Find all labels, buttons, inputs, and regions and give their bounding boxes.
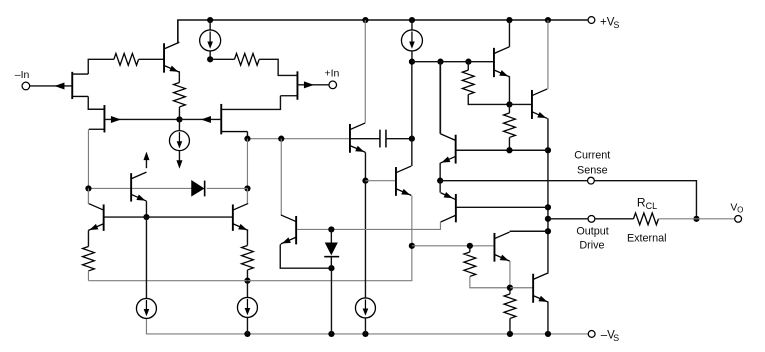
wire Q7 collector up to I5 net — [411, 62, 413, 166]
wire J3 gate to +In terminal — [297, 84, 328, 86]
transistor Q10 (mirror right) — [232, 204, 234, 230]
wire D2 junction to -VS rail — [330, 268, 332, 334]
wire Q2 emitter to N5 — [508, 76, 510, 104]
svg-text:Sense: Sense — [577, 165, 608, 177]
wire N5 to Q3 base — [509, 103, 532, 105]
node N6 junction — [506, 147, 512, 153]
wire Q10 collector up — [246, 188, 248, 203]
label Output Drive — [576, 225, 608, 251]
wire I3 top (from mirror base net) — [145, 217, 147, 298]
jfet J4 (+In cascode) — [221, 104, 247, 134]
wire net N6 (Q4 base) — [456, 149, 548, 151]
wire J2 source down to mirror net — [87, 129, 89, 204]
transistor Q11 (mirror center) — [130, 173, 132, 201]
wire I4 to -VS rail — [246, 317, 248, 334]
wire +VS to I1 — [209, 20, 211, 30]
wire N2 down to Q8 collector — [280, 139, 282, 215]
capacitor C1 — [380, 130, 386, 148]
wire Q11 collector up — [145, 155, 147, 168]
wire N2 down to Q10 collector — [246, 139, 248, 204]
label Current Sense — [574, 149, 610, 176]
wire Q1 emitter to R3 — [178, 71, 180, 82]
wire -In to J1 gate — [30, 85, 72, 87]
wire Q8 emitter path — [280, 244, 331, 268]
wire J2 gate to node N1 — [104, 118, 179, 120]
wire mirror net — [88, 187, 247, 189]
wire I6 to -VS rail — [364, 318, 366, 334]
wire +VS to I5 — [411, 20, 413, 30]
wire Q6 emitter down — [364, 152, 366, 180]
capacitor C1 right lead — [386, 138, 412, 140]
diode D1 — [191, 180, 204, 197]
svg-text:Output: Output — [576, 225, 608, 237]
node N8 (Q12 base) — [507, 285, 513, 291]
wire R9 to -VS rail — [509, 318, 511, 334]
wire J4 gate to node N1 — [179, 118, 221, 120]
wire I2 output — [178, 151, 180, 162]
wire Q7 base — [365, 180, 396, 182]
transistor Q12 (output) — [532, 274, 534, 303]
arrow -In gate (points left) — [54, 82, 64, 89]
wire J1 source to J2 drain — [88, 96, 104, 109]
wire Q2 collector to +VS rail — [508, 20, 510, 47]
resistor RCL — [633, 213, 658, 225]
label RCL — [637, 195, 657, 211]
resistor R4 — [462, 70, 474, 94]
capacitor C1 left lead — [351, 138, 380, 140]
resistor R6 — [83, 246, 95, 270]
wire -VS rail — [146, 319, 588, 334]
transistor Q2 — [493, 48, 495, 77]
wire Q1 collector to +VS rail — [177, 20, 179, 42]
wire Q6 collector to +VS rail — [364, 20, 366, 122]
wire Q3 emitter down (output column) — [547, 118, 549, 272]
jfet J1 (-In input) — [72, 72, 88, 99]
wire I5 to net N4 — [411, 51, 413, 62]
node N5 (Q2 emitter/R5/Q3 base) — [506, 101, 512, 107]
jfet J3 (+In input) — [280, 71, 297, 99]
wire Q7 emitter down — [411, 195, 413, 246]
wire N3 to R8 — [469, 246, 471, 252]
wire R5 to net N6 — [508, 137, 510, 150]
transistor Q9 (mirror left) — [103, 204, 105, 230]
current source I6 — [355, 298, 375, 318]
resistor R9 — [504, 294, 516, 318]
resistor R3 — [174, 82, 186, 106]
node N3 junction (R8 top) — [467, 243, 473, 249]
node mirror base net — [143, 214, 149, 220]
node resistor net / I4 — [244, 278, 250, 284]
wire R6 to resistor net — [87, 271, 89, 281]
resistor R5 — [504, 113, 516, 137]
terminal +VS — [588, 17, 595, 24]
node N1 (cascode bias) — [176, 116, 182, 122]
arrow J2 gate (points right) — [111, 116, 121, 123]
wire Q9 emitter to R6 — [87, 230, 89, 246]
svg-text:Current: Current — [574, 149, 610, 161]
wire N4 down to Q4 collector — [439, 62, 441, 134]
wire R7 to resistor net node — [246, 270, 248, 281]
wire N8 to Q12 base — [510, 287, 533, 289]
transistor Q1 — [163, 43, 165, 72]
label VO — [730, 201, 743, 214]
node I1/base net — [207, 56, 213, 62]
wire R1 to Q1 base — [139, 58, 165, 60]
terminal +In — [329, 81, 337, 89]
node N2/mirror junction — [244, 185, 250, 191]
svg-text:O: O — [737, 206, 743, 215]
current source I2 — [169, 131, 189, 151]
wire net N4 (to Q2 base) — [412, 61, 494, 63]
svg-text:R: R — [637, 195, 646, 209]
wire Output Drive to RCL — [595, 218, 634, 220]
svg-text:Drive: Drive — [579, 239, 604, 251]
wire N1 to current source I2 — [178, 119, 180, 130]
transistor Q5 — [455, 194, 457, 222]
resistor R2 — [234, 53, 259, 65]
current source I3 — [136, 298, 156, 318]
wire J4 source down — [246, 132, 248, 139]
wire resistor net — [88, 246, 411, 281]
current source I4 — [237, 297, 257, 317]
terminal VO — [735, 215, 742, 222]
transistor Q8 (driver) — [295, 216, 297, 244]
transistor Q4 — [455, 135, 457, 164]
wire D2 anode stem — [330, 229, 332, 242]
node output column junctions — [545, 147, 551, 234]
node N4 junctions — [409, 59, 472, 65]
wire base net to R2 — [210, 58, 234, 60]
resistor R1 — [114, 53, 139, 65]
wire I4 top — [246, 281, 248, 298]
node Q6 emitter / Q7 base — [362, 178, 368, 184]
node mirror net left — [85, 185, 91, 191]
svg-text:CL: CL — [646, 201, 658, 211]
wire net N3 (Q13 base) — [412, 245, 495, 247]
wire current sense — [440, 180, 587, 182]
wire Q4 emitter down — [439, 163, 441, 181]
node N2 junctions — [244, 136, 284, 142]
wire Q5 collector down to N7 — [297, 222, 441, 230]
svg-text:–In: –In — [15, 69, 30, 81]
wire Q4 collector up — [439, 62, 441, 134]
wire Q9 collector up to mirror net — [87, 188, 89, 204]
terminal -In — [22, 82, 30, 90]
arrow J4 gate (points left) — [201, 116, 211, 123]
wire output drive — [548, 218, 588, 220]
current source I1 — [200, 30, 221, 51]
arrow J3 gate (points right) — [304, 81, 314, 88]
terminal -VS — [588, 331, 595, 338]
label -VS — [601, 330, 619, 343]
terminal Current Sense — [588, 177, 595, 184]
node +VS rail junctions — [207, 17, 551, 23]
jfet J2 (-In cascode) — [89, 105, 105, 132]
wire VO lead — [696, 218, 734, 220]
wire R4 to net N5 — [468, 95, 509, 105]
node D2 cathode junction — [328, 265, 334, 271]
node VO junction — [693, 216, 699, 222]
arrow I2 output (points down) — [176, 160, 182, 169]
transistor Q7 — [395, 167, 397, 196]
wire J3 source to J4 drain — [221, 96, 280, 110]
wire J1 drain up to R1 net — [88, 59, 114, 74]
wire N4 to R4 — [467, 62, 469, 70]
svg-text:S: S — [613, 333, 619, 343]
wire N8 to R9 — [509, 288, 511, 294]
wire net N2 (to Q6 base) — [247, 138, 350, 140]
wire Q10 emitter to R7 — [246, 230, 248, 245]
wire I1 to base net — [209, 51, 211, 59]
wire N5 to R5 — [508, 104, 510, 113]
wire Q6 emitter column to I6 — [364, 181, 366, 298]
wire Q13 collector to output column — [510, 230, 548, 232]
transistor Q13 (pre-driver) — [493, 233, 495, 262]
svg-text:External: External — [627, 232, 667, 244]
wire Q12 emitter to -VS rail — [547, 302, 549, 334]
terminal Output Drive — [588, 215, 595, 222]
wire D2 cathode stem — [330, 257, 332, 269]
label +VS — [600, 16, 619, 30]
wire R3 to node N1 — [178, 107, 180, 120]
resistor R8 — [464, 252, 476, 276]
wire R2 to J3 drain — [259, 59, 297, 75]
current source I5 — [401, 30, 422, 51]
wire Q3 collector to +VS rail — [547, 20, 549, 89]
node -VS rail junctions — [244, 331, 551, 337]
wire Q5 base to output column — [456, 206, 548, 208]
wire current sense loop — [594, 181, 696, 219]
wire mirror base net — [104, 216, 232, 218]
transistor Q6 (2nd stage) — [349, 124, 351, 153]
svg-text:S: S — [613, 20, 619, 30]
wire Q11 emitter to mirror base net — [145, 201, 147, 217]
arrow Q11 collector (points up) — [143, 152, 149, 161]
node C1 / Q7 collector column — [409, 136, 415, 142]
wire RCL to VO node — [658, 218, 696, 220]
diode D2 — [324, 242, 339, 256]
svg-text:+In: +In — [324, 68, 339, 80]
wire Q12 collector to output column — [547, 271, 549, 274]
resistor R7 — [242, 245, 254, 269]
transistor Q3 — [531, 90, 533, 119]
wire Q5 emitter up to node — [439, 181, 441, 193]
node Q7 emitter / N3 — [409, 243, 415, 249]
wire Q13 emitter down — [509, 261, 511, 288]
wire +VS rail — [178, 20, 588, 42]
wire R8 to net N8 — [470, 276, 510, 287]
node N7 (D2 anode) — [328, 226, 334, 232]
node Q4 emitter / current sense — [437, 178, 443, 184]
